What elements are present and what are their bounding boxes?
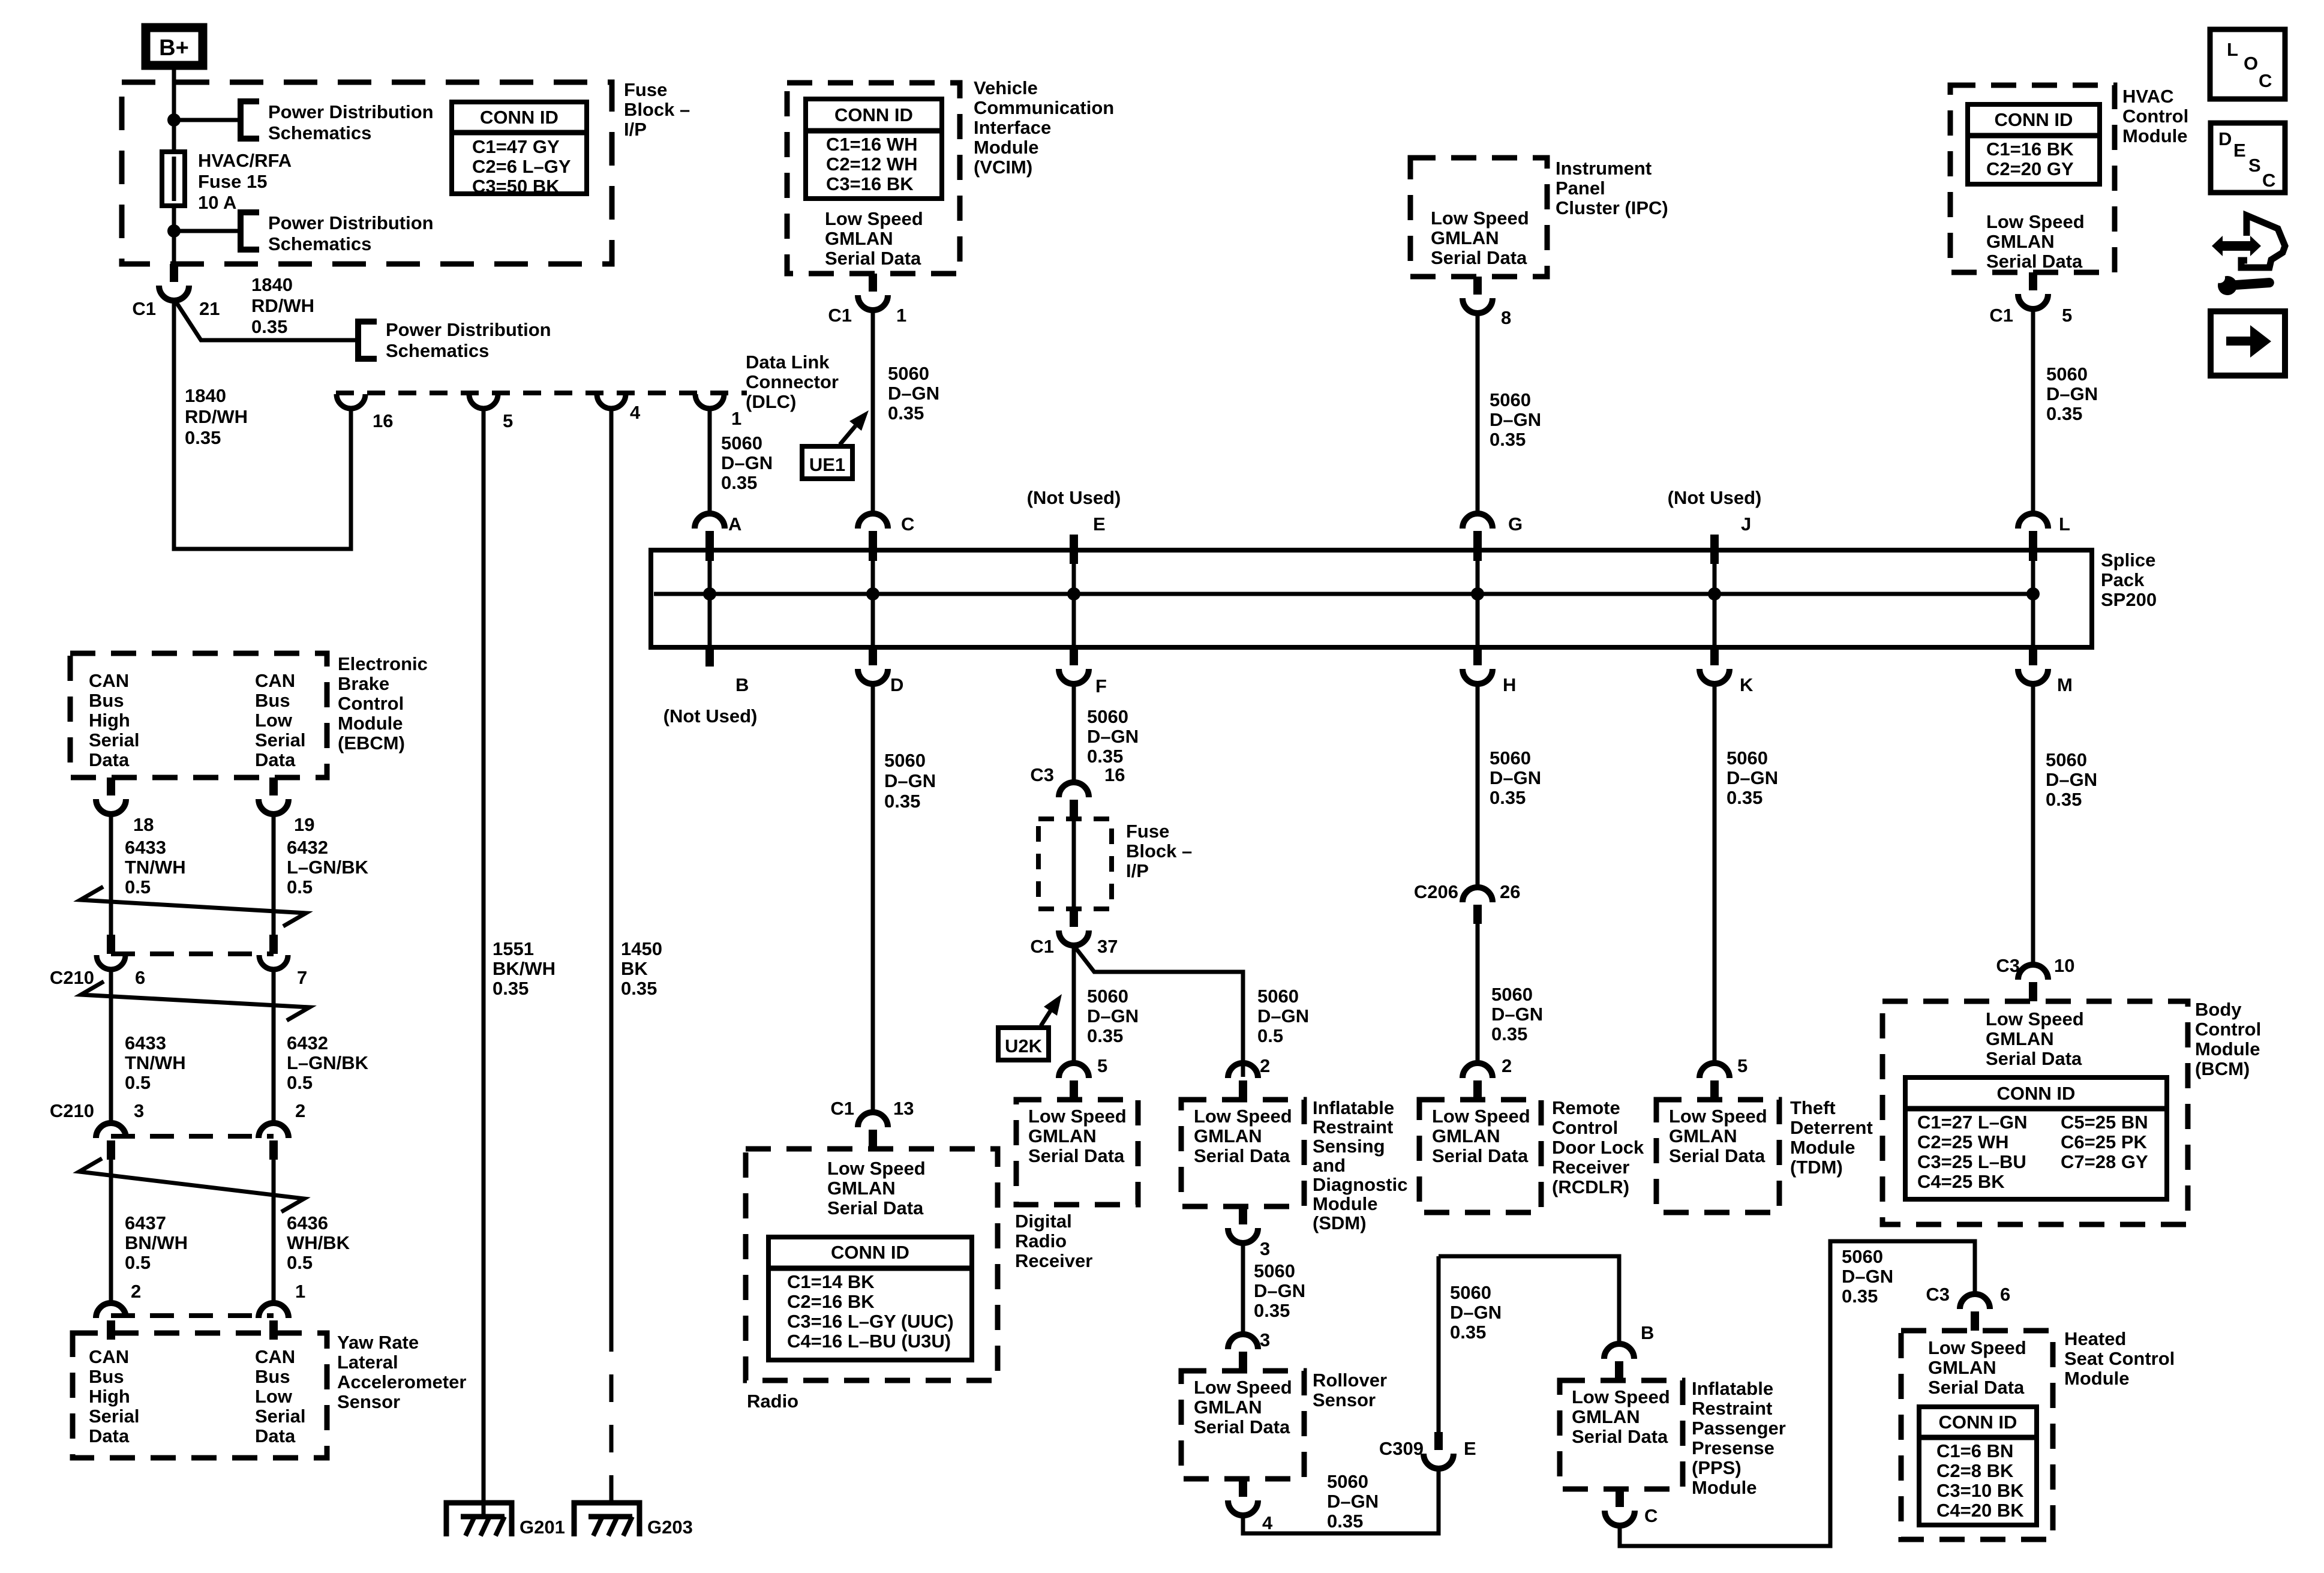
svg-text:CONN ID: CONN ID	[1939, 1412, 2017, 1433]
svg-text:High: High	[89, 710, 130, 731]
svg-text:C1=16 BK: C1=16 BK	[1986, 139, 2074, 160]
svg-text:5: 5	[2062, 305, 2072, 326]
svg-text:Connector: Connector	[746, 371, 839, 392]
svg-text:L–GN/BK: L–GN/BK	[287, 1052, 369, 1073]
wire 6432 L-GN/BK upper	[272, 812, 276, 935]
wire branch to power distribution 2	[174, 229, 241, 233]
svg-text:C210: C210	[50, 967, 94, 988]
connector table CONN ID heated seat	[1919, 1407, 2037, 1525]
svg-text:Block –: Block –	[1126, 840, 1192, 861]
svg-text:Pack: Pack	[2101, 569, 2145, 590]
svg-text:H: H	[1503, 674, 1516, 695]
svg-text:Low Speed: Low Speed	[1028, 1106, 1127, 1127]
splice junction C	[866, 587, 879, 601]
node A entry connector	[695, 514, 725, 561]
svg-text:E: E	[1093, 514, 1106, 535]
splice junction A	[703, 587, 716, 601]
wire 6437 BN/WH lower	[109, 1157, 113, 1304]
wire splice H to C206	[1476, 682, 1480, 888]
svg-text:Data: Data	[89, 1425, 130, 1446]
svg-text:(DLC): (DLC)	[746, 391, 796, 412]
connector table CONN ID radio	[768, 1237, 972, 1360]
svg-text:E: E	[2233, 140, 2246, 161]
svg-text:6432: 6432	[287, 1032, 328, 1053]
heated seat dashed box	[1901, 1331, 2053, 1539]
svg-text:Heated: Heated	[2064, 1328, 2126, 1349]
connector pin C PPS	[1605, 1489, 1635, 1526]
svg-text:Restraint: Restraint	[1313, 1116, 1393, 1137]
svg-text:GMLAN: GMLAN	[1928, 1357, 1996, 1378]
wire B+ feed	[172, 65, 176, 264]
svg-text:Control: Control	[2122, 106, 2188, 127]
svg-text:0.35: 0.35	[2046, 403, 2082, 424]
svg-text:C4=16 L–BU (U3U): C4=16 L–BU (U3U)	[787, 1331, 951, 1352]
fuse HVAC/RFA Fuse 15 10A	[162, 152, 185, 206]
svg-text:UE1: UE1	[809, 454, 845, 475]
svg-text:(VCIM): (VCIM)	[974, 157, 1032, 178]
data link connector DLC dashed line	[336, 391, 747, 395]
svg-text:13: 13	[893, 1098, 914, 1119]
svg-text:Module: Module	[1313, 1193, 1378, 1214]
svg-text:0.5: 0.5	[125, 876, 151, 897]
wire 6436 WH/BK lower	[272, 1157, 276, 1304]
svg-text:C1=47 GY: C1=47 GY	[472, 136, 560, 157]
wire VCIM to splice C	[871, 308, 875, 514]
svg-text:RD/WH: RD/WH	[185, 406, 248, 427]
svg-text:BN/WH: BN/WH	[125, 1232, 188, 1253]
svg-text:C1: C1	[1030, 936, 1054, 957]
svg-text:B+: B+	[159, 35, 189, 61]
svg-text:Serial Data: Serial Data	[1194, 1145, 1290, 1166]
svg-text:0.35: 0.35	[1842, 1286, 1878, 1307]
svg-text:Low Speed: Low Speed	[1572, 1386, 1670, 1407]
EBCM dashed box	[70, 653, 327, 778]
svg-text:1840: 1840	[185, 385, 226, 406]
svg-text:Radio: Radio	[747, 1391, 798, 1412]
svg-text:Accelerometer: Accelerometer	[337, 1371, 466, 1392]
twisted pair symbol 3	[79, 1158, 304, 1212]
svg-text:C206: C206	[1414, 881, 1458, 902]
connector table CONN ID fuse block	[452, 102, 587, 194]
svg-text:Body: Body	[2195, 999, 2242, 1020]
svg-text:Bus: Bus	[89, 690, 124, 711]
svg-text:S: S	[2248, 155, 2261, 176]
digital radio receiver dashed box	[1016, 1100, 1138, 1205]
svg-text:D–GN: D–GN	[884, 770, 936, 791]
node G entry connector	[1463, 514, 1493, 561]
icon box DESC	[2211, 123, 2285, 193]
svg-text:Power Distribution: Power Distribution	[386, 319, 551, 340]
svg-text:Bus: Bus	[255, 690, 290, 711]
SDM dashed box	[1181, 1100, 1304, 1206]
splice stub J (not used)	[1710, 535, 1719, 564]
svg-text:D–GN: D–GN	[1842, 1266, 1893, 1287]
connector pin 8 IPC	[1463, 277, 1493, 313]
svg-text:5: 5	[503, 410, 513, 431]
connector table CONN ID VCIM	[806, 99, 942, 199]
svg-text:4: 4	[1262, 1512, 1273, 1533]
svg-text:Serial Data: Serial Data	[1986, 251, 2083, 272]
svg-text:CAN: CAN	[255, 1346, 295, 1367]
svg-text:Serial: Serial	[89, 730, 139, 751]
svg-text:0.35: 0.35	[1491, 1023, 1527, 1044]
svg-text:CONN ID: CONN ID	[831, 1242, 909, 1263]
svg-text:M: M	[2057, 674, 2073, 695]
splice pack SP200 box	[651, 550, 2092, 647]
svg-text:Sensing: Sensing	[1313, 1136, 1385, 1157]
svg-text:Fuse: Fuse	[1126, 821, 1169, 842]
svg-text:Interface: Interface	[974, 117, 1051, 138]
svg-text:and: and	[1313, 1155, 1346, 1176]
BCM dashed box	[1882, 1001, 2188, 1224]
svg-text:0.35: 0.35	[1450, 1322, 1486, 1343]
connector C3 pin 6 heated seat	[1960, 1294, 1990, 1331]
svg-text:CAN: CAN	[89, 670, 129, 691]
svg-text:Low: Low	[255, 1386, 293, 1407]
node M connector	[2018, 647, 2048, 684]
svg-text:C1=27 L–GN: C1=27 L–GN	[1917, 1112, 2028, 1133]
svg-text:5060: 5060	[1257, 986, 1299, 1007]
svg-text:5060: 5060	[1087, 986, 1128, 1007]
svg-text:J: J	[1741, 514, 1751, 535]
svg-text:0.35: 0.35	[185, 427, 221, 448]
svg-text:C1=14 BK: C1=14 BK	[787, 1271, 875, 1292]
svg-text:D–GN: D–GN	[1254, 1280, 1305, 1301]
svg-text:C2=6 L–GY: C2=6 L–GY	[472, 156, 571, 177]
svg-text:D–GN: D–GN	[721, 452, 773, 473]
svg-text:Data: Data	[255, 749, 296, 770]
arrow UE1 to wire	[840, 426, 855, 445]
yaw sensor dashed box	[73, 1333, 327, 1458]
svg-text:Schematics: Schematics	[268, 122, 371, 143]
svg-text:0.5: 0.5	[125, 1252, 151, 1273]
wire 1450 BK dashed segment	[609, 1324, 614, 1517]
svg-text:6436: 6436	[287, 1212, 328, 1233]
svg-text:C3: C3	[1996, 955, 2020, 976]
splice internal wire L-M	[2031, 550, 2035, 647]
wire branch to power distribution	[174, 118, 241, 122]
off-page bracket power distribution 2	[241, 212, 259, 250]
svg-text:6433: 6433	[125, 837, 166, 858]
svg-text:5060: 5060	[1254, 1260, 1295, 1281]
svg-text:(Not Used): (Not Used)	[1668, 487, 1762, 508]
connector table CONN ID BCM	[1905, 1077, 2167, 1199]
svg-text:CAN: CAN	[255, 670, 295, 691]
svg-text:B: B	[1641, 1322, 1654, 1343]
svg-text:Block –: Block –	[624, 99, 690, 120]
svg-text:0.35: 0.35	[2046, 789, 2082, 810]
svg-text:C309: C309	[1379, 1438, 1424, 1459]
svg-text:Theft: Theft	[1790, 1097, 1836, 1118]
svg-text:K: K	[1740, 674, 1753, 695]
svg-text:E: E	[1464, 1438, 1476, 1459]
svg-text:Low Speed: Low Speed	[1986, 211, 2085, 232]
svg-text:7: 7	[297, 967, 307, 988]
svg-text:Sensor: Sensor	[1313, 1389, 1376, 1410]
wire branch to SDM	[1076, 948, 1243, 1077]
svg-text:BK/WH: BK/WH	[493, 958, 556, 979]
connector C1 pin 21 fuse block	[159, 264, 189, 301]
svg-text:Presense: Presense	[1692, 1437, 1774, 1458]
connector pin 5 digital radio receiver	[1059, 1063, 1089, 1100]
svg-text:CONN ID: CONN ID	[834, 104, 913, 125]
wire C309 to PPS pin B	[1439, 1256, 1619, 1344]
svg-text:B: B	[735, 674, 749, 695]
svg-text:C6=25 PK: C6=25 PK	[2061, 1131, 2148, 1152]
svg-text:Serial Data: Serial Data	[1194, 1416, 1290, 1437]
wire PPS to heated seat module	[1620, 1241, 1975, 1546]
connector C309 pin E	[1437, 1256, 1441, 1432]
svg-text:C3: C3	[1926, 1284, 1950, 1305]
svg-text:6433: 6433	[125, 1032, 166, 1053]
svg-text:Low Speed: Low Speed	[1194, 1106, 1292, 1127]
svg-text:Brake: Brake	[338, 673, 389, 694]
junction node	[167, 113, 181, 127]
svg-text:CONN ID: CONN ID	[1997, 1083, 2076, 1104]
svg-text:HVAC/RFA: HVAC/RFA	[198, 150, 292, 171]
svg-text:Low Speed: Low Speed	[1986, 1008, 2084, 1029]
svg-text:Low Speed: Low Speed	[827, 1158, 926, 1179]
svg-text:Instrument: Instrument	[1556, 158, 1652, 179]
svg-text:D–GN: D–GN	[1727, 767, 1778, 788]
twisted pair symbol 2	[81, 981, 310, 1020]
svg-text:HVAC: HVAC	[2122, 86, 2174, 107]
wire 6433 TN/WH upper	[109, 812, 113, 935]
connector table CONN ID HVAC	[1968, 104, 2100, 184]
svg-text:C1=6 BN: C1=6 BN	[1936, 1440, 2013, 1461]
svg-text:5060: 5060	[1491, 984, 1533, 1005]
connector C3 pin 10 BCM	[2018, 965, 2048, 1001]
icon wrench and arrow	[2212, 215, 2285, 296]
svg-text:C2=20 GY: C2=20 GY	[1986, 158, 2074, 179]
svg-text:26: 26	[1500, 881, 1520, 902]
splice junction K	[1708, 587, 1721, 601]
DLC pin 5 connector	[469, 394, 498, 409]
wire splice M to BCM	[2031, 682, 2035, 965]
svg-text:Remote: Remote	[1552, 1097, 1620, 1118]
svg-text:O: O	[2244, 53, 2258, 74]
svg-text:Module: Module	[974, 137, 1039, 158]
svg-text:(RCDLR): (RCDLR)	[1552, 1176, 1629, 1197]
wire 1840 RD/WH down to DLC pin 16	[174, 299, 351, 549]
svg-text:Module: Module	[1692, 1477, 1757, 1498]
connector C1 pin 5 HVAC	[2018, 272, 2048, 309]
svg-text:Electronic: Electronic	[338, 653, 428, 674]
wire 1840 RD/WH to power distribution	[174, 299, 358, 340]
node F connector	[1059, 647, 1089, 684]
svg-text:D–GN: D–GN	[1257, 1005, 1309, 1026]
svg-text:C3=25 L–BU: C3=25 L–BU	[1917, 1151, 2026, 1172]
svg-text:1: 1	[731, 408, 741, 429]
svg-text:Module: Module	[1790, 1137, 1855, 1158]
svg-text:G201: G201	[520, 1517, 565, 1538]
svg-text:5060: 5060	[1490, 748, 1531, 769]
svg-text:6437: 6437	[125, 1212, 166, 1233]
svg-text:8: 8	[1501, 307, 1511, 328]
svg-text:C: C	[901, 514, 914, 535]
svg-text:C4=25 BK: C4=25 BK	[1917, 1171, 2005, 1192]
svg-text:5060: 5060	[1490, 389, 1531, 410]
wire SDM to rollover sensor	[1241, 1241, 1245, 1335]
svg-text:16: 16	[1104, 764, 1125, 785]
svg-text:C1: C1	[828, 305, 852, 326]
svg-text:Splice: Splice	[2101, 550, 2155, 571]
svg-text:0.35: 0.35	[1490, 787, 1526, 808]
wire splice F to fuse block	[1072, 682, 1076, 783]
svg-text:GMLAN: GMLAN	[1986, 231, 2055, 252]
svg-text:Data Link: Data Link	[746, 352, 830, 373]
svg-text:GMLAN: GMLAN	[1194, 1397, 1262, 1418]
svg-text:Sensor: Sensor	[337, 1391, 400, 1412]
svg-text:C2=16 BK: C2=16 BK	[787, 1291, 875, 1312]
svg-text:0.35: 0.35	[251, 316, 287, 337]
wire C206 to RCDLR	[1476, 921, 1480, 1066]
svg-text:C2=8 BK: C2=8 BK	[1936, 1460, 2014, 1481]
connector pin B PPS	[1604, 1344, 1634, 1380]
svg-text:6: 6	[2000, 1284, 2010, 1305]
svg-text:L: L	[2227, 39, 2238, 60]
splice junction F	[1067, 587, 1080, 601]
svg-text:C1=16 WH: C1=16 WH	[826, 134, 917, 155]
svg-text:Low: Low	[255, 710, 293, 731]
wire fuse block to digital radio receiver	[1072, 944, 1076, 1064]
svg-text:2: 2	[131, 1281, 141, 1302]
connector C1 pin 13 radio	[858, 1112, 888, 1149]
svg-text:Low Speed: Low Speed	[825, 208, 923, 229]
svg-text:I/P: I/P	[1126, 860, 1149, 881]
svg-text:6432: 6432	[287, 837, 328, 858]
svg-text:(BCM): (BCM)	[2195, 1058, 2250, 1079]
connector pin 18 EBCM	[96, 778, 126, 814]
svg-text:GMLAN: GMLAN	[1431, 227, 1499, 248]
power node B+	[146, 28, 203, 65]
connector pin 5 TDM	[1700, 1063, 1730, 1100]
svg-text:Inflatable: Inflatable	[1313, 1097, 1394, 1118]
svg-text:Rollover: Rollover	[1313, 1370, 1387, 1391]
svg-text:Control: Control	[1552, 1117, 1618, 1138]
svg-text:0.5: 0.5	[125, 1072, 151, 1093]
svg-text:Fuse: Fuse	[624, 79, 667, 100]
svg-text:C2=25 WH: C2=25 WH	[1917, 1131, 2008, 1152]
svg-text:GMLAN: GMLAN	[1669, 1125, 1737, 1146]
connector row yaw sensor pins 2 1	[111, 1313, 274, 1318]
svg-text:0.35: 0.35	[1087, 1025, 1123, 1046]
VCIM dashed box	[787, 83, 960, 274]
svg-text:G: G	[1508, 514, 1523, 535]
svg-text:C3=50 BK: C3=50 BK	[472, 176, 560, 197]
svg-text:3: 3	[1260, 1238, 1270, 1259]
svg-text:C2=12 WH: C2=12 WH	[826, 154, 917, 175]
svg-text:0.35: 0.35	[1727, 787, 1762, 808]
svg-text:I/P: I/P	[624, 119, 647, 140]
fuse block I/P dashed box	[122, 82, 612, 264]
svg-text:Lateral: Lateral	[337, 1352, 398, 1373]
svg-text:1: 1	[896, 305, 906, 326]
svg-text:GMLAN: GMLAN	[1986, 1028, 2054, 1049]
svg-text:C: C	[1644, 1505, 1658, 1526]
svg-text:Serial Data: Serial Data	[1669, 1145, 1765, 1166]
arrow U2K to wire	[1041, 1011, 1050, 1026]
svg-text:2: 2	[295, 1100, 305, 1121]
connector C3 pin 16 fuse block IP	[1059, 782, 1089, 819]
svg-text:Data: Data	[89, 749, 130, 770]
svg-text:10: 10	[2054, 955, 2074, 976]
svg-text:C1: C1	[132, 298, 156, 319]
svg-text:1450: 1450	[621, 938, 662, 959]
svg-text:0.35: 0.35	[1254, 1300, 1290, 1321]
wire L-GN/BK mid right	[272, 969, 276, 1124]
svg-text:Vehicle: Vehicle	[974, 77, 1038, 98]
svg-text:0.35: 0.35	[888, 403, 924, 424]
connector C206 pin 26	[1463, 887, 1493, 924]
svg-text:GMLAN: GMLAN	[1028, 1125, 1097, 1146]
svg-text:1551: 1551	[493, 938, 534, 959]
svg-text:2: 2	[1502, 1055, 1512, 1076]
svg-text:(SDM): (SDM)	[1313, 1212, 1367, 1233]
splice internal wire C-D	[871, 550, 875, 647]
node D connector	[858, 647, 888, 684]
ground G203	[574, 1503, 639, 1536]
off-page bracket power distribution 1	[241, 101, 259, 139]
off-page bracket power distribution 3	[358, 322, 377, 359]
reference UE1 box	[802, 446, 852, 479]
svg-text:1: 1	[295, 1281, 305, 1302]
wire 1551 BK/WH to G201	[482, 409, 486, 1517]
svg-text:(Not Used): (Not Used)	[1027, 487, 1121, 508]
svg-text:Serial: Serial	[89, 1406, 139, 1427]
svg-text:C4=20 BK: C4=20 BK	[1936, 1500, 2024, 1521]
svg-text:1840: 1840	[251, 274, 293, 295]
svg-text:(Not Used): (Not Used)	[663, 706, 758, 727]
splice internal wire J-K	[1713, 564, 1717, 647]
node K connector	[1700, 647, 1730, 684]
svg-text:0.35: 0.35	[1490, 429, 1526, 450]
svg-text:Passenger: Passenger	[1692, 1418, 1786, 1439]
connector C1 pin 37 fuse block IP	[1059, 909, 1089, 945]
svg-text:D: D	[890, 674, 903, 695]
svg-text:TN/WH: TN/WH	[125, 857, 186, 878]
svg-text:SP200: SP200	[2101, 589, 2157, 610]
svg-text:0.35: 0.35	[1087, 746, 1123, 767]
svg-text:Door Lock: Door Lock	[1552, 1137, 1644, 1158]
splice pack bus line	[654, 592, 2033, 596]
junction node	[167, 224, 181, 238]
svg-text:Serial: Serial	[255, 730, 305, 751]
fuse block IP dashed box	[1038, 819, 1112, 909]
svg-text:L–GN/BK: L–GN/BK	[287, 857, 369, 878]
connector pin 19 EBCM	[259, 778, 289, 814]
PPS dashed box	[1560, 1380, 1683, 1489]
svg-text:Serial Data: Serial Data	[1928, 1377, 2025, 1398]
svg-text:GMLAN: GMLAN	[827, 1178, 896, 1199]
svg-text:Low Speed: Low Speed	[1431, 208, 1529, 229]
splice internal wire A-B	[708, 550, 712, 647]
svg-text:C1: C1	[830, 1098, 854, 1119]
svg-text:5060: 5060	[2046, 364, 2088, 385]
connector row C210 pins 3 2	[111, 1134, 274, 1139]
svg-text:Serial Data: Serial Data	[825, 248, 921, 269]
svg-text:(TDM): (TDM)	[1790, 1157, 1843, 1178]
svg-text:Radio: Radio	[1015, 1230, 1067, 1251]
svg-text:CAN: CAN	[89, 1346, 129, 1367]
svg-text:C: C	[2262, 170, 2275, 191]
svg-text:D–GN: D–GN	[1087, 1005, 1139, 1026]
svg-text:0.35: 0.35	[1327, 1511, 1363, 1532]
svg-text:F: F	[1095, 676, 1107, 697]
svg-text:Serial: Serial	[255, 1406, 305, 1427]
connector pin 2 RCDLR	[1463, 1063, 1493, 1100]
svg-text:Serial Data: Serial Data	[1432, 1145, 1529, 1166]
